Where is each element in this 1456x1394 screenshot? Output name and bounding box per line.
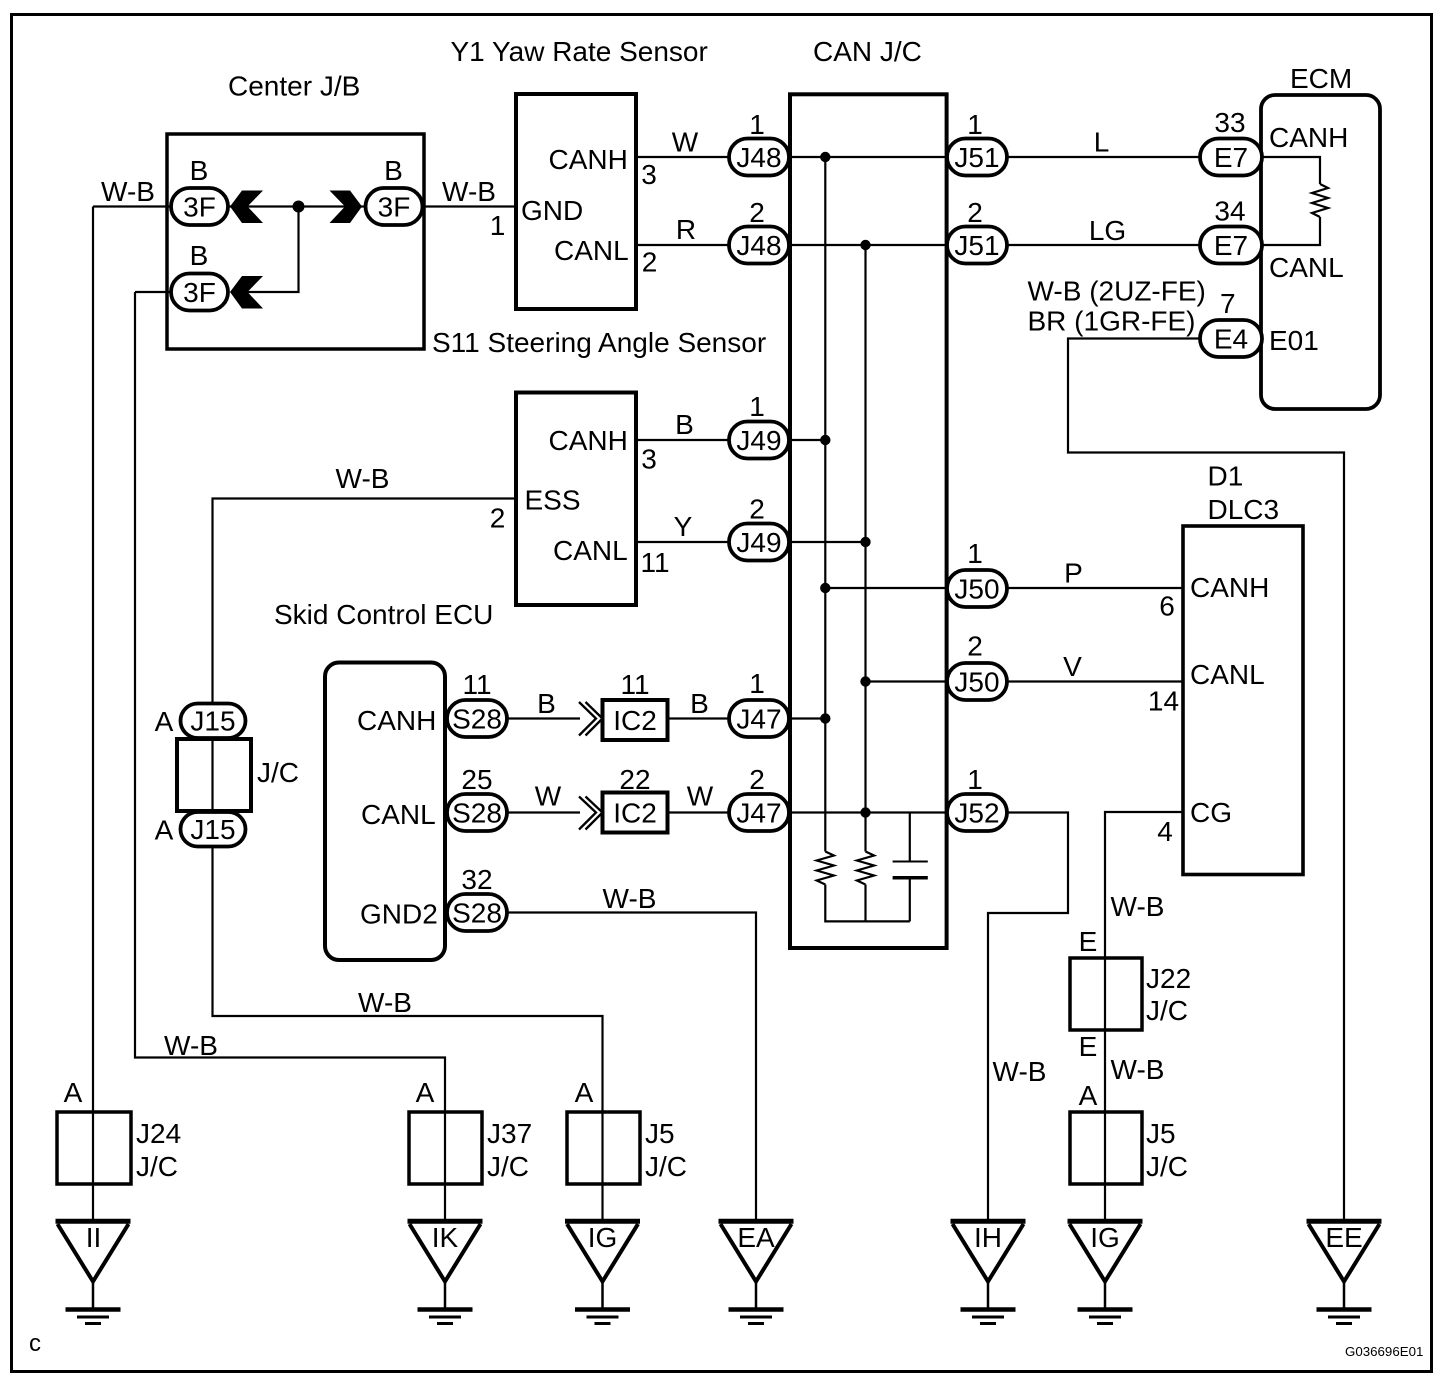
svg-text:11: 11 bbox=[640, 547, 669, 578]
svg-text:B: B bbox=[190, 240, 209, 271]
svg-text:2: 2 bbox=[490, 503, 506, 534]
svg-text:J51: J51 bbox=[954, 230, 999, 261]
svg-text:34: 34 bbox=[1214, 196, 1245, 227]
svg-text:J22: J22 bbox=[1146, 963, 1191, 994]
svg-text:E01: E01 bbox=[1269, 325, 1319, 356]
svg-text:E: E bbox=[1079, 926, 1098, 957]
svg-text:22: 22 bbox=[619, 764, 650, 795]
svg-text:CAN J/C: CAN J/C bbox=[813, 36, 922, 67]
svg-text:L: L bbox=[1094, 127, 1110, 158]
svg-text:3: 3 bbox=[641, 444, 657, 475]
svg-text:V: V bbox=[1063, 651, 1082, 682]
svg-text:BR (1GR-FE): BR (1GR-FE) bbox=[1028, 306, 1196, 337]
svg-text:LG: LG bbox=[1089, 215, 1126, 246]
svg-text:1: 1 bbox=[749, 668, 765, 699]
svg-text:1: 1 bbox=[490, 210, 506, 241]
svg-text:B: B bbox=[384, 155, 403, 186]
svg-text:W: W bbox=[535, 781, 562, 812]
svg-text:2: 2 bbox=[749, 494, 765, 525]
svg-text:Y1 Yaw Rate Sensor: Y1 Yaw Rate Sensor bbox=[451, 36, 708, 67]
svg-text:J5: J5 bbox=[645, 1118, 675, 1149]
svg-text:J15: J15 bbox=[190, 706, 235, 737]
svg-text:EA: EA bbox=[737, 1222, 775, 1253]
svg-text:IG: IG bbox=[1090, 1222, 1120, 1253]
svg-text:11: 11 bbox=[620, 669, 649, 700]
svg-text:3: 3 bbox=[641, 159, 657, 190]
svg-text:W-B: W-B bbox=[603, 883, 657, 914]
svg-text:J52: J52 bbox=[954, 798, 999, 829]
svg-text:3F: 3F bbox=[378, 192, 411, 223]
svg-text:GND2: GND2 bbox=[360, 899, 438, 930]
svg-text:W-B: W-B bbox=[993, 1056, 1047, 1087]
svg-text:E4: E4 bbox=[1214, 324, 1248, 355]
svg-text:Center J/B: Center J/B bbox=[228, 71, 360, 102]
svg-text:ECM: ECM bbox=[1290, 63, 1352, 94]
svg-text:J50: J50 bbox=[954, 667, 999, 698]
svg-text:P: P bbox=[1064, 558, 1083, 589]
svg-text:1: 1 bbox=[749, 391, 765, 422]
svg-text:CANH: CANH bbox=[1269, 122, 1348, 153]
svg-text:J/C: J/C bbox=[645, 1151, 687, 1182]
svg-text:E7: E7 bbox=[1214, 230, 1248, 261]
svg-text:B: B bbox=[690, 688, 709, 719]
svg-text:W-B: W-B bbox=[101, 176, 155, 207]
svg-text:CANH: CANH bbox=[1190, 572, 1269, 603]
svg-text:W-B: W-B bbox=[442, 176, 496, 207]
svg-text:E7: E7 bbox=[1214, 142, 1248, 173]
svg-text:S11 Steering Angle Sensor: S11 Steering Angle Sensor bbox=[432, 327, 766, 358]
svg-text:W-B: W-B bbox=[336, 463, 390, 494]
svg-text:J50: J50 bbox=[954, 574, 999, 605]
svg-text:J47: J47 bbox=[736, 798, 781, 829]
svg-text:W: W bbox=[672, 127, 699, 158]
svg-text:1: 1 bbox=[967, 109, 983, 140]
svg-text:A: A bbox=[575, 1077, 594, 1108]
svg-text:J24: J24 bbox=[136, 1118, 181, 1149]
svg-text:J/C: J/C bbox=[487, 1151, 529, 1182]
svg-text:3F: 3F bbox=[183, 277, 216, 308]
svg-text:J37: J37 bbox=[487, 1118, 532, 1149]
svg-text:2: 2 bbox=[642, 247, 658, 278]
svg-text:4: 4 bbox=[1157, 816, 1173, 847]
svg-text:1: 1 bbox=[749, 109, 765, 140]
svg-text:J/C: J/C bbox=[1146, 995, 1188, 1026]
svg-text:R: R bbox=[676, 214, 696, 245]
svg-text:6: 6 bbox=[1159, 591, 1175, 622]
svg-text:CANL: CANL bbox=[554, 235, 629, 266]
svg-text:25: 25 bbox=[461, 764, 492, 795]
svg-text:CANL: CANL bbox=[361, 799, 436, 830]
svg-text:A: A bbox=[64, 1077, 83, 1108]
svg-text:J5: J5 bbox=[1146, 1118, 1176, 1149]
svg-text:IH: IH bbox=[974, 1222, 1002, 1253]
svg-text:c: c bbox=[29, 1330, 41, 1357]
svg-text:IG: IG bbox=[588, 1222, 618, 1253]
svg-text:J48: J48 bbox=[736, 142, 781, 173]
svg-text:W-B: W-B bbox=[358, 987, 412, 1018]
svg-text:GND: GND bbox=[521, 195, 583, 226]
svg-text:A: A bbox=[155, 815, 174, 846]
svg-text:J49: J49 bbox=[736, 527, 781, 558]
svg-text:ESS: ESS bbox=[525, 485, 581, 516]
svg-text:W-B: W-B bbox=[1111, 1054, 1165, 1085]
svg-text:1: 1 bbox=[967, 764, 983, 795]
svg-text:II: II bbox=[86, 1222, 102, 1253]
svg-text:J15: J15 bbox=[190, 814, 235, 845]
svg-text:S28: S28 bbox=[452, 798, 502, 829]
svg-text:J49: J49 bbox=[736, 425, 781, 456]
svg-text:7: 7 bbox=[1220, 288, 1236, 319]
svg-text:S28: S28 bbox=[452, 898, 502, 929]
svg-text:CANL: CANL bbox=[1190, 659, 1265, 690]
svg-text:B: B bbox=[675, 409, 694, 440]
svg-text:2: 2 bbox=[967, 631, 983, 662]
svg-text:W-B: W-B bbox=[1111, 891, 1165, 922]
svg-text:IC2: IC2 bbox=[613, 798, 657, 829]
svg-text:E: E bbox=[1079, 1031, 1098, 1062]
svg-text:Y: Y bbox=[674, 511, 693, 542]
svg-text:A: A bbox=[1079, 1080, 1098, 1111]
svg-text:W-B: W-B bbox=[164, 1030, 218, 1061]
svg-text:CG: CG bbox=[1190, 797, 1232, 828]
svg-text:EE: EE bbox=[1325, 1222, 1362, 1253]
svg-text:IC2: IC2 bbox=[613, 705, 657, 736]
svg-text:J/C: J/C bbox=[257, 757, 299, 788]
svg-text:A: A bbox=[416, 1077, 435, 1108]
svg-text:J/C: J/C bbox=[136, 1151, 178, 1182]
svg-text:D1: D1 bbox=[1208, 461, 1244, 492]
svg-text:14: 14 bbox=[1148, 686, 1179, 717]
svg-text:G036696E01: G036696E01 bbox=[1345, 1344, 1423, 1359]
svg-text:2: 2 bbox=[749, 764, 765, 795]
svg-text:CANL: CANL bbox=[1269, 252, 1344, 283]
svg-text:IK: IK bbox=[432, 1222, 459, 1253]
svg-text:B: B bbox=[190, 155, 209, 186]
svg-text:11: 11 bbox=[462, 669, 491, 700]
svg-text:B: B bbox=[537, 688, 556, 719]
svg-text:32: 32 bbox=[461, 864, 492, 895]
svg-text:3F: 3F bbox=[183, 192, 216, 223]
svg-text:J48: J48 bbox=[736, 230, 781, 261]
svg-text:S28: S28 bbox=[452, 704, 502, 735]
svg-text:2: 2 bbox=[967, 197, 983, 228]
svg-text:CANH: CANH bbox=[549, 144, 628, 175]
svg-text:1: 1 bbox=[967, 538, 983, 569]
svg-text:CANL: CANL bbox=[553, 535, 628, 566]
svg-text:Skid Control ECU: Skid Control ECU bbox=[274, 599, 493, 630]
svg-text:J/C: J/C bbox=[1146, 1151, 1188, 1182]
svg-text:CANH: CANH bbox=[357, 705, 436, 736]
svg-text:J51: J51 bbox=[954, 142, 999, 173]
svg-text:33: 33 bbox=[1214, 107, 1245, 138]
svg-text:W-B (2UZ-FE): W-B (2UZ-FE) bbox=[1028, 276, 1206, 307]
svg-text:A: A bbox=[155, 706, 174, 737]
svg-text:CANH: CANH bbox=[549, 425, 628, 456]
svg-text:W: W bbox=[687, 781, 714, 812]
svg-text:J47: J47 bbox=[736, 704, 781, 735]
svg-text:DLC3: DLC3 bbox=[1208, 494, 1280, 525]
svg-text:2: 2 bbox=[749, 197, 765, 228]
